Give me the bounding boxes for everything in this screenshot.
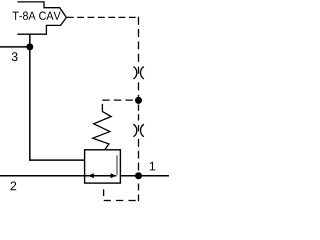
valve V1 flow arrow right head: [111, 173, 117, 178]
wire port 2 horizontal: [0, 175, 116, 177]
label 2: [11, 181, 17, 190]
label T-8A CAV: [13, 12, 61, 20]
wire dash through lower orifice: [138, 125, 140, 131]
label 1: [150, 162, 155, 171]
dashed cavity envelope vertical bottom end: [138, 195, 140, 202]
wire port 3 horizontal: [0, 46, 30, 48]
node junction dot on envelope at pilot line: [135, 97, 142, 104]
node junction dot on envelope at port 1: [135, 172, 142, 179]
label 3: [12, 52, 18, 61]
spring K1: [93, 104, 111, 150]
dashed cavity envelope vertical upper: [138, 17, 140, 62]
wire from flag down to valve: [30, 34, 85, 160]
dashed cavity envelope vertical (to port 1 dot): [138, 139, 140, 171]
dashed cavity envelope bottom left vertical dash: [103, 189, 105, 196]
dashed cavity envelope vertical (orifice to dot): [138, 82, 140, 97]
cavity flag T-8A CAV: [17, 2, 66, 34]
node port 3 junction dot: [26, 43, 33, 50]
valve V1 flow arrow left head: [88, 173, 94, 178]
dashed cavity envelope vertical (dot to lower orifice): [138, 105, 140, 122]
dashed cavity envelope bottom horizontal: [104, 200, 136, 202]
orifice symbol upper: [133, 67, 144, 80]
dashed cavity envelope vertical below port 1: [138, 184, 140, 191]
valve V1 internal pilot line: [116, 155, 118, 175]
valve V1 envelope box: [85, 150, 121, 183]
wire dash through upper orifice: [138, 67, 140, 74]
dashed leader wire from flag point: [67, 16, 136, 18]
wire port 1 horizontal: [120, 175, 169, 177]
orifice symbol lower: [133, 124, 144, 137]
dashed cavity envelope top horizontal: [102, 99, 134, 101]
